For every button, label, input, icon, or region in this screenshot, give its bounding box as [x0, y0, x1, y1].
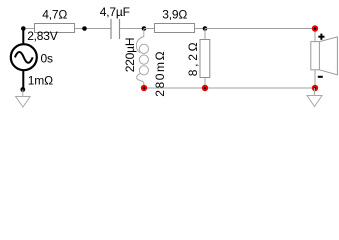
- wire node C to R2: [144, 28, 155, 30]
- node H red junction (speaker bottom): [312, 85, 318, 91]
- junction node D: [203, 26, 208, 31]
- svg-text:0s: 0s: [41, 52, 53, 66]
- voltage source V1: [11, 29, 37, 90]
- node E red junction (L1 bottom): [141, 85, 147, 91]
- wire C1 to node C: [120, 28, 145, 30]
- junction node C: [142, 26, 147, 31]
- label -: [318, 76, 323, 78]
- svg-text:280mΩ: 280mΩ: [153, 50, 167, 97]
- inductor L1 220µH coil: [136, 29, 148, 89]
- label +: [318, 34, 324, 40]
- source bottom terminal dot: [20, 87, 25, 92]
- wire node D to speaker top: [205, 28, 315, 30]
- node G red junction (speaker top): [312, 25, 318, 31]
- svg-text:8,2Ω: 8,2Ω: [186, 40, 200, 76]
- svg-text:1mΩ: 1mΩ: [28, 74, 53, 88]
- node F red junction (R3 bottom): [202, 85, 208, 91]
- svg-text:3,9Ω: 3,9Ω: [162, 8, 187, 22]
- ground G2 (speaker): [307, 88, 322, 107]
- svg-text:4,7µF: 4,7µF: [100, 5, 130, 19]
- wire R2 to node D: [195, 28, 206, 30]
- resistor R3 8,2Ω vertical: [204, 29, 206, 40]
- ground G1 (source): [16, 90, 31, 108]
- resistor R1 4,7Ω: [35, 24, 75, 33]
- resistor R2 3,9Ω: [155, 24, 195, 33]
- wire bottom rail: [144, 87, 315, 89]
- wire top rail segment node A to R1: [23, 28, 34, 30]
- wire R1 to capacitor C1: [75, 28, 112, 30]
- junction node B: [82, 26, 87, 31]
- junction node A: [21, 26, 26, 31]
- capacitor C1 4,7µF plates: [110, 19, 112, 39]
- svg-text:220µH: 220µH: [123, 38, 137, 73]
- speaker LS1: [311, 29, 338, 89]
- svg-text:4,7Ω: 4,7Ω: [42, 8, 67, 22]
- svg-text:2,83V: 2,83V: [27, 29, 58, 43]
